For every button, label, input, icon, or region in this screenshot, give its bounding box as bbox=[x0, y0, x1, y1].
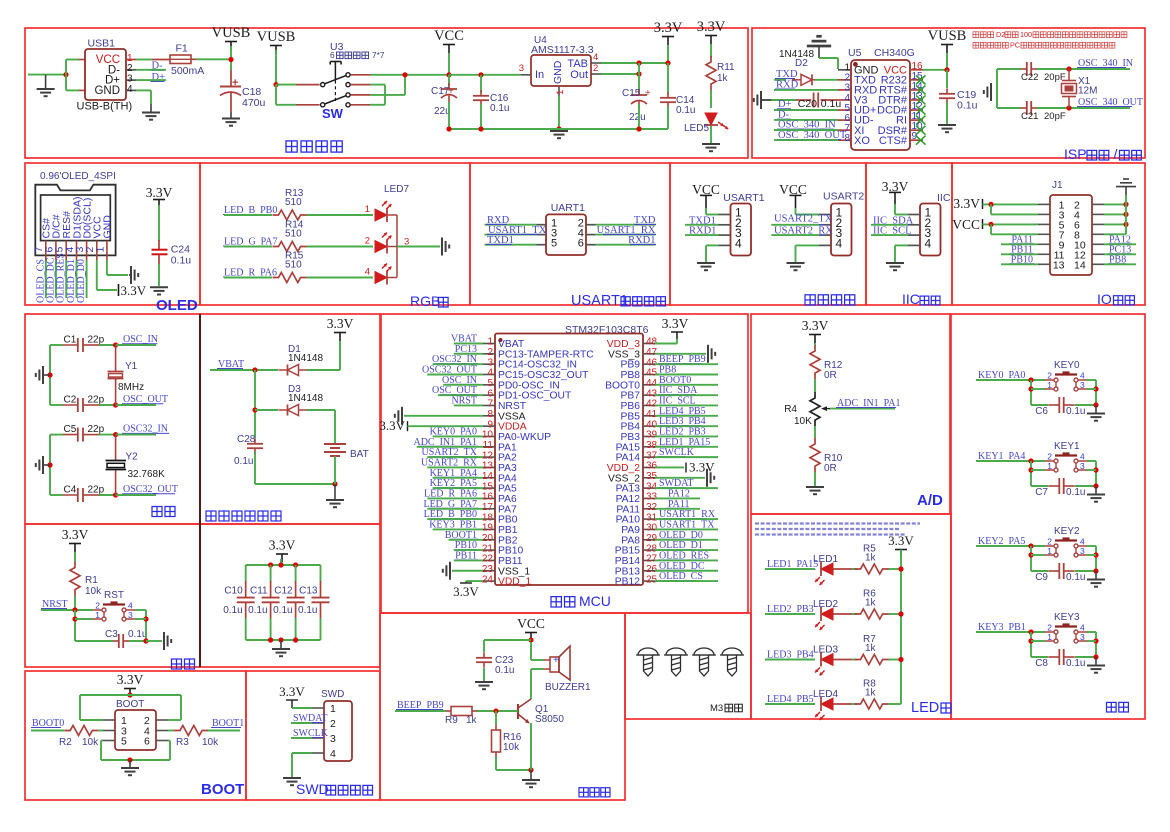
svg-text:1: 1 bbox=[1047, 380, 1052, 390]
svg-text:IIC: IIC bbox=[902, 291, 920, 307]
svg-text:LED4: LED4 bbox=[813, 689, 838, 700]
svg-text:4: 4 bbox=[836, 236, 843, 250]
svg-text:Y1: Y1 bbox=[125, 361, 138, 372]
svg-text:R3: R3 bbox=[176, 737, 189, 748]
svg-text:1: 1 bbox=[330, 703, 336, 715]
svg-text:1k: 1k bbox=[865, 688, 877, 699]
svg-text:2: 2 bbox=[1047, 537, 1052, 547]
svg-text:22p: 22p bbox=[88, 484, 105, 495]
svg-text:1: 1 bbox=[95, 610, 100, 620]
svg-text:C9: C9 bbox=[1035, 572, 1048, 583]
svg-text:13: 13 bbox=[1053, 259, 1065, 271]
svg-text:4: 4 bbox=[128, 601, 133, 611]
svg-text:OLED: OLED bbox=[156, 297, 198, 314]
svg-text:6: 6 bbox=[330, 50, 335, 60]
svg-text:3.3V: 3.3V bbox=[697, 19, 726, 35]
svg-text:VDD_1: VDD_1 bbox=[498, 577, 531, 588]
svg-text:22p: 22p bbox=[88, 394, 105, 405]
svg-text:SW: SW bbox=[322, 106, 344, 121]
svg-text:4: 4 bbox=[127, 84, 133, 95]
svg-text:Y2: Y2 bbox=[126, 452, 139, 463]
svg-text:8MHz: 8MHz bbox=[118, 382, 144, 393]
svg-text:RST: RST bbox=[104, 590, 124, 601]
svg-text:3: 3 bbox=[1080, 546, 1085, 556]
svg-text:3.3V: 3.3V bbox=[269, 538, 296, 553]
svg-text:KEY0: KEY0 bbox=[1054, 360, 1080, 371]
svg-text:KEY3: KEY3 bbox=[1054, 612, 1080, 623]
svg-text:VCC: VCC bbox=[517, 616, 545, 631]
svg-text:4: 4 bbox=[1080, 623, 1085, 633]
svg-text:0.1u: 0.1u bbox=[1066, 658, 1085, 669]
svg-text:32.768K: 32.768K bbox=[128, 469, 166, 480]
svg-text:R14: R14 bbox=[285, 220, 304, 231]
svg-text:S8050: S8050 bbox=[535, 714, 564, 725]
svg-text:R4: R4 bbox=[784, 404, 797, 415]
svg-text:2: 2 bbox=[593, 63, 598, 74]
svg-text:3: 3 bbox=[1080, 380, 1085, 390]
svg-text:+: + bbox=[232, 77, 238, 89]
svg-text:UART1: UART1 bbox=[551, 202, 585, 214]
svg-text:F1: F1 bbox=[176, 43, 188, 55]
svg-text:C13: C13 bbox=[299, 586, 318, 597]
svg-text:C5: C5 bbox=[64, 424, 77, 435]
svg-text:4: 4 bbox=[735, 236, 742, 250]
svg-text:USART2: USART2 bbox=[823, 191, 864, 203]
svg-text:VUSB: VUSB bbox=[928, 28, 967, 44]
svg-text:5: 5 bbox=[551, 238, 557, 250]
svg-text:3.3V: 3.3V bbox=[953, 196, 980, 211]
svg-text:0.1u: 0.1u bbox=[821, 98, 842, 110]
svg-text:500mA: 500mA bbox=[171, 65, 204, 77]
svg-text:MCU: MCU bbox=[579, 593, 611, 609]
svg-text:0.1u: 0.1u bbox=[273, 605, 292, 616]
svg-text:USART1: USART1 bbox=[723, 192, 764, 204]
svg-text:1: 1 bbox=[555, 90, 566, 95]
svg-text:0R: 0R bbox=[824, 370, 837, 381]
svg-text:+: + bbox=[553, 655, 559, 666]
svg-text:R15: R15 bbox=[285, 251, 304, 262]
svg-text:BAT: BAT bbox=[350, 449, 369, 460]
svg-text:1k: 1k bbox=[865, 598, 877, 609]
svg-text:2: 2 bbox=[95, 601, 100, 611]
svg-text:2: 2 bbox=[365, 235, 370, 246]
svg-text:C2: C2 bbox=[64, 394, 77, 405]
svg-text:C3: C3 bbox=[105, 629, 118, 640]
svg-text:10k: 10k bbox=[503, 742, 520, 753]
svg-text:USB-B(TH): USB-B(TH) bbox=[77, 101, 133, 113]
svg-text:0R: 0R bbox=[824, 463, 837, 474]
svg-text:C20: C20 bbox=[798, 98, 817, 110]
svg-text:1: 1 bbox=[1047, 461, 1052, 471]
svg-text:/: / bbox=[1113, 146, 1117, 162]
svg-text:3.3V: 3.3V bbox=[662, 316, 689, 331]
svg-text:A/D: A/D bbox=[917, 492, 943, 509]
svg-text:GND: GND bbox=[552, 60, 564, 84]
svg-text:10K: 10K bbox=[794, 416, 812, 427]
svg-text:1k: 1k bbox=[717, 73, 729, 84]
svg-text:C22: C22 bbox=[1021, 72, 1038, 83]
svg-text:In: In bbox=[535, 69, 544, 81]
svg-text:C11: C11 bbox=[250, 586, 268, 597]
svg-text:3.3V: 3.3V bbox=[888, 533, 914, 548]
svg-text:R9: R9 bbox=[445, 715, 458, 726]
svg-text:1k: 1k bbox=[865, 643, 877, 654]
svg-text:14: 14 bbox=[1074, 259, 1086, 271]
svg-text:BUZZER1: BUZZER1 bbox=[545, 682, 591, 693]
svg-text:KEY2: KEY2 bbox=[1054, 526, 1080, 537]
svg-text:0.1u: 0.1u bbox=[490, 103, 509, 114]
svg-text:LED1: LED1 bbox=[813, 554, 838, 565]
svg-text:3.3V: 3.3V bbox=[117, 672, 144, 687]
svg-text:1: 1 bbox=[1047, 546, 1052, 556]
svg-text:C10: C10 bbox=[224, 586, 243, 597]
svg-text:0.1u: 0.1u bbox=[495, 665, 514, 676]
svg-text:0.1u: 0.1u bbox=[1066, 487, 1085, 498]
svg-text:R2: R2 bbox=[59, 737, 72, 748]
svg-text:2: 2 bbox=[1047, 452, 1052, 462]
svg-text:C7: C7 bbox=[1035, 487, 1048, 498]
svg-text:0.1u: 0.1u bbox=[957, 100, 978, 112]
svg-text:3.3V: 3.3V bbox=[62, 527, 89, 542]
svg-text:0.1u: 0.1u bbox=[234, 456, 253, 467]
svg-text:470u: 470u bbox=[242, 97, 266, 109]
svg-text:R13: R13 bbox=[285, 188, 304, 199]
svg-text:SWD: SWD bbox=[296, 781, 329, 797]
svg-text:C21: C21 bbox=[1021, 111, 1038, 122]
svg-text:3.3V: 3.3V bbox=[146, 185, 173, 200]
svg-text:3.3V: 3.3V bbox=[689, 459, 715, 474]
svg-text:1k: 1k bbox=[466, 715, 478, 726]
svg-text:0.1u: 0.1u bbox=[298, 605, 317, 616]
svg-text:22u: 22u bbox=[629, 112, 646, 123]
svg-text:U5: U5 bbox=[848, 47, 862, 59]
svg-text:20pF: 20pF bbox=[1044, 72, 1066, 83]
svg-text:R11: R11 bbox=[717, 62, 735, 73]
svg-text:3: 3 bbox=[1080, 461, 1085, 471]
svg-text:4: 4 bbox=[593, 52, 598, 63]
svg-text:R1: R1 bbox=[85, 575, 98, 586]
svg-text:3: 3 bbox=[330, 733, 336, 745]
svg-text:VCC: VCC bbox=[952, 217, 980, 232]
svg-text:22p: 22p bbox=[88, 334, 105, 345]
svg-text:3.3V: 3.3V bbox=[327, 316, 354, 331]
svg-text:4: 4 bbox=[1080, 537, 1085, 547]
svg-text:SWD: SWD bbox=[321, 689, 344, 700]
svg-text:4: 4 bbox=[330, 748, 336, 760]
svg-text:RGB: RGB bbox=[410, 293, 440, 309]
svg-text:3: 3 bbox=[128, 610, 133, 620]
svg-text:12M: 12M bbox=[1078, 86, 1097, 97]
svg-text:GND: GND bbox=[94, 85, 120, 97]
svg-text:1N4148: 1N4148 bbox=[288, 353, 323, 364]
svg-text:USART1: USART1 bbox=[571, 293, 628, 309]
svg-text:PB12: PB12 bbox=[615, 577, 640, 588]
svg-text:2: 2 bbox=[330, 718, 336, 730]
svg-text:USB1: USB1 bbox=[88, 38, 116, 50]
svg-text:6: 6 bbox=[144, 736, 150, 748]
svg-text:24: 24 bbox=[482, 574, 494, 585]
svg-text:USART2_TX: USART2_TX bbox=[774, 214, 833, 225]
svg-text:3.3V: 3.3V bbox=[279, 684, 305, 699]
svg-text:0.1u: 0.1u bbox=[171, 255, 192, 267]
svg-text:2: 2 bbox=[1047, 371, 1052, 381]
svg-text:J1: J1 bbox=[1052, 180, 1063, 191]
svg-text:0.1u: 0.1u bbox=[248, 605, 267, 616]
svg-text:3.3V: 3.3V bbox=[654, 20, 683, 36]
svg-text:LED: LED bbox=[911, 700, 939, 716]
svg-text:M3: M3 bbox=[710, 703, 723, 714]
svg-text:1: 1 bbox=[1047, 632, 1052, 642]
svg-text:3: 3 bbox=[1080, 632, 1085, 642]
svg-text:+: + bbox=[645, 88, 651, 99]
svg-text:C6: C6 bbox=[1035, 406, 1048, 417]
svg-text:D2: D2 bbox=[795, 58, 808, 69]
svg-text:C1: C1 bbox=[64, 334, 77, 345]
svg-text:LED2: LED2 bbox=[813, 599, 838, 610]
svg-text:1k: 1k bbox=[865, 553, 877, 564]
svg-text:PC: PC bbox=[1010, 41, 1020, 50]
svg-text:6: 6 bbox=[578, 238, 584, 250]
svg-text:0.96'OLED_4SPI: 0.96'OLED_4SPI bbox=[40, 171, 116, 182]
svg-text:C12: C12 bbox=[274, 586, 293, 597]
svg-text:LED5: LED5 bbox=[684, 123, 709, 134]
svg-text:OLED_D0: OLED_D0 bbox=[76, 259, 87, 303]
svg-text:LED7: LED7 bbox=[384, 184, 409, 195]
svg-text:0.1u: 0.1u bbox=[1066, 572, 1085, 583]
svg-text:3.3V: 3.3V bbox=[802, 318, 829, 333]
svg-text:Out: Out bbox=[570, 69, 588, 81]
svg-text:C17: C17 bbox=[431, 86, 450, 97]
svg-text:0.1u: 0.1u bbox=[223, 605, 242, 616]
svg-text:C8: C8 bbox=[1035, 658, 1048, 669]
svg-text:4: 4 bbox=[925, 236, 932, 250]
svg-text:25: 25 bbox=[646, 574, 658, 585]
svg-text:C15: C15 bbox=[622, 88, 641, 99]
svg-text:4: 4 bbox=[1080, 452, 1085, 462]
svg-text:C28: C28 bbox=[237, 434, 256, 445]
svg-text:4: 4 bbox=[365, 266, 370, 277]
svg-text:10k: 10k bbox=[85, 586, 102, 597]
svg-text:5: 5 bbox=[121, 736, 127, 748]
svg-text:3.3V: 3.3V bbox=[453, 584, 479, 599]
svg-text:100: 100 bbox=[1020, 30, 1032, 39]
svg-text:10k: 10k bbox=[82, 737, 99, 748]
svg-text:0.1u: 0.1u bbox=[1066, 406, 1085, 417]
svg-text:XO: XO bbox=[854, 135, 870, 147]
svg-text:CH340G: CH340G bbox=[874, 47, 915, 59]
svg-text:2: 2 bbox=[1047, 623, 1052, 633]
svg-text:0.1u: 0.1u bbox=[676, 105, 695, 116]
svg-text:20pF: 20pF bbox=[1044, 111, 1066, 122]
svg-text:0.1u: 0.1u bbox=[128, 629, 147, 640]
svg-text:BOOT: BOOT bbox=[116, 699, 144, 710]
svg-text:IO: IO bbox=[1097, 291, 1112, 307]
svg-text:BOOT: BOOT bbox=[201, 781, 244, 798]
svg-text:ISP: ISP bbox=[1064, 146, 1087, 162]
svg-text:3.3V: 3.3V bbox=[121, 283, 147, 298]
svg-text:C4: C4 bbox=[64, 484, 77, 495]
svg-text:VUSB: VUSB bbox=[257, 29, 296, 45]
svg-text:VCC: VCC bbox=[434, 28, 464, 44]
svg-text:1: 1 bbox=[365, 204, 370, 215]
svg-text:VUSB: VUSB bbox=[212, 25, 251, 41]
svg-text:GND: GND bbox=[102, 215, 114, 239]
svg-text:3: 3 bbox=[519, 63, 524, 74]
svg-text:22p: 22p bbox=[88, 424, 105, 435]
svg-text:LED3: LED3 bbox=[813, 645, 838, 656]
svg-text:7*7: 7*7 bbox=[372, 50, 385, 60]
svg-text:KEY1: KEY1 bbox=[1054, 441, 1080, 452]
svg-text:1N4148: 1N4148 bbox=[288, 393, 323, 404]
svg-text:CTS#: CTS# bbox=[879, 135, 908, 147]
svg-text:IIC: IIC bbox=[937, 192, 951, 204]
svg-text:10k: 10k bbox=[202, 737, 219, 748]
svg-text:D2: D2 bbox=[996, 30, 1005, 39]
svg-text:3.3V: 3.3V bbox=[379, 418, 405, 433]
svg-text:1: 1 bbox=[94, 247, 106, 253]
svg-text:4: 4 bbox=[1080, 371, 1085, 381]
